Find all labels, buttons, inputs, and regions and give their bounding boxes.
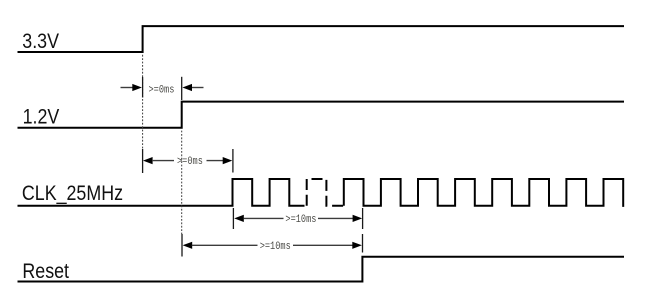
guide dotted line at 3.3V rising edge bbox=[142, 55, 144, 150]
tick left of dim4 bbox=[181, 234, 183, 257]
svg-text:CLK_25MHz: CLK_25MHz bbox=[22, 182, 123, 206]
dimension dim3 left arrow bbox=[234, 215, 283, 222]
dimension dim2 right arrow bbox=[207, 157, 233, 164]
tick right of dim2 bbox=[232, 149, 234, 173]
svg-text:3.3V: 3.3V bbox=[22, 30, 59, 54]
tick left of dim3 bbox=[232, 208, 234, 229]
wire CLK_25MHz waveform solid left bbox=[18, 179, 305, 206]
tick right of dim3 bbox=[362, 208, 364, 229]
svg-text:1.2V: 1.2V bbox=[23, 105, 60, 129]
dimension dim1 right arrow bbox=[182, 84, 203, 91]
tick right of dim4 bbox=[362, 234, 364, 253]
wire 3.3V waveform bbox=[18, 26, 625, 52]
wire Reset waveform bbox=[18, 257, 625, 282]
wire CLK_25MHz dashed break pulse bbox=[307, 179, 344, 206]
tick left of dim1 bbox=[142, 77, 144, 98]
dimension dim2 left arrow bbox=[143, 157, 174, 164]
tick left of dim2 bbox=[142, 149, 144, 173]
tick right of dim1 bbox=[181, 77, 183, 100]
dimension dim1 left arrow bbox=[121, 84, 142, 91]
guide dotted line at 1.2V rising edge bbox=[181, 131, 183, 234]
dimension dim4 right arrow bbox=[293, 242, 362, 249]
dimension dim3 right arrow bbox=[318, 215, 362, 222]
svg-text:>=10ms: >=10ms bbox=[260, 240, 291, 252]
wire 1.2V waveform bbox=[18, 102, 625, 128]
svg-text:>=0ms: >=0ms bbox=[177, 155, 203, 167]
dimension dim4 left arrow bbox=[183, 242, 258, 249]
wire CLK_25MHz waveform solid right bbox=[344, 179, 623, 207]
svg-text:Reset: Reset bbox=[22, 260, 69, 284]
svg-text:>=0ms: >=0ms bbox=[149, 84, 175, 96]
svg-text:>=10ms: >=10ms bbox=[285, 213, 316, 225]
